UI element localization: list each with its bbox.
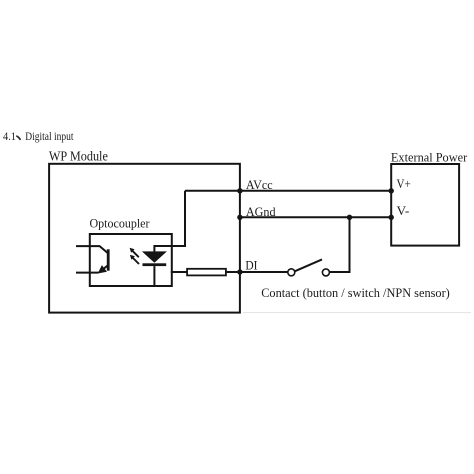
node DI at module edge xyxy=(237,269,242,274)
wire AVcc xyxy=(185,190,391,192)
wire switch to AGnd tap xyxy=(330,217,350,272)
faint page artifact line xyxy=(243,312,471,314)
switch S1 contact right pole xyxy=(322,269,329,276)
light arrows of optocoupler xyxy=(130,248,139,264)
svg-text:4.1: 4.1 xyxy=(3,131,16,143)
switch S1 contact left pole xyxy=(288,269,295,276)
svg-text:DI: DI xyxy=(245,259,257,273)
svg-text:Optocoupler: Optocoupler xyxy=(90,216,151,230)
wire optocoupler to resistor xyxy=(171,271,187,273)
node V+ terminal xyxy=(389,188,394,193)
box External Power xyxy=(391,164,459,246)
transistor Q1 phototransistor xyxy=(76,246,110,273)
wire DI xyxy=(226,271,288,273)
switch S1 blade xyxy=(295,259,322,271)
svg-text:Contact (button / switch /NPN: Contact (button / switch /NPN sensor) xyxy=(261,286,450,300)
svg-text:V-: V- xyxy=(397,204,410,218)
node AGnd switch tap xyxy=(347,215,352,220)
wire LED anode to AVcc xyxy=(154,191,185,252)
svg-text:External Power: External Power xyxy=(391,149,468,164)
node AVcc at module edge xyxy=(237,188,242,193)
svg-text:AVcc: AVcc xyxy=(246,178,273,192)
svg-text:WP Module: WP Module xyxy=(49,148,108,163)
svg-text:Digital input: Digital input xyxy=(25,131,74,143)
wire AGnd xyxy=(240,216,391,218)
box WP Module xyxy=(49,164,240,313)
node V- terminal xyxy=(389,215,394,220)
resistor R1 xyxy=(187,269,226,276)
svg-text:V+: V+ xyxy=(397,177,411,191)
diode D1 LED of optocoupler xyxy=(143,252,167,266)
heading 4.1 Digital input xyxy=(3,131,74,143)
node AGnd at module edge xyxy=(237,215,242,220)
svg-text:AGnd: AGnd xyxy=(246,205,276,219)
wire LED cathode down to optocoupler box bottom xyxy=(153,266,155,286)
box Optocoupler U1 xyxy=(90,234,172,286)
